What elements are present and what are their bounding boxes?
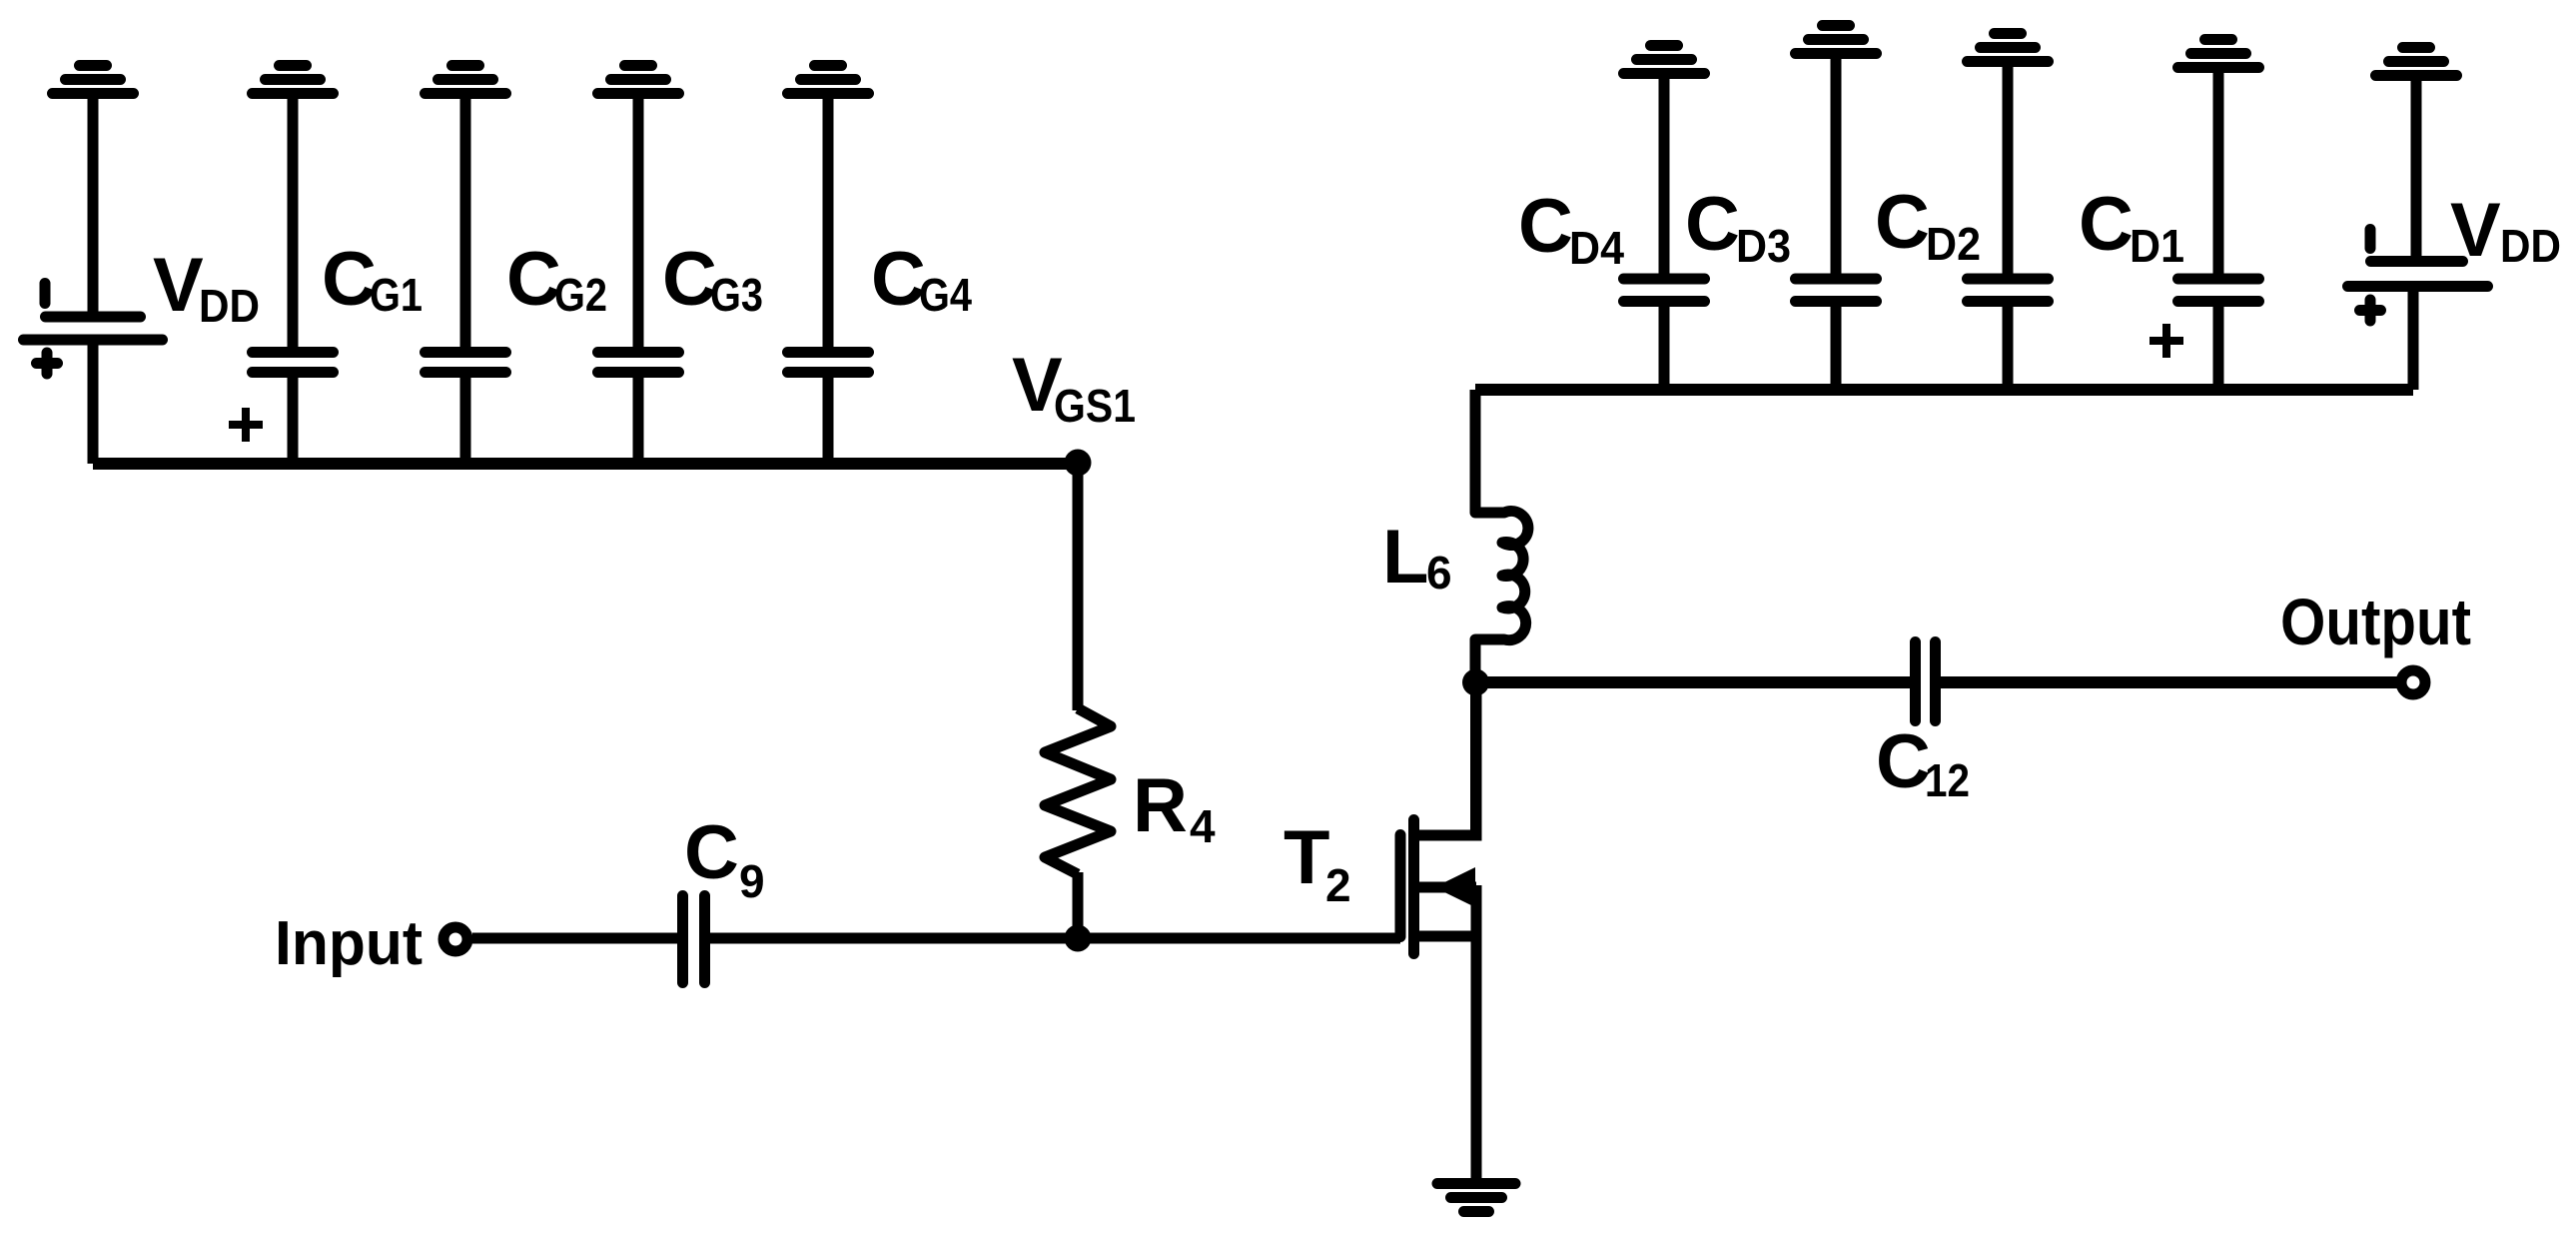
ground (inverted) above capacitor C_D3 <box>1796 26 1877 54</box>
wire C_G1 bottom lead <box>288 372 299 464</box>
wire C_G4 top lead <box>823 96 834 353</box>
label C_G4 <box>871 237 972 322</box>
ground (inverted) above capacitor C_G2 <box>426 66 506 94</box>
svg-text:C: C <box>684 810 739 895</box>
svg-text:G4: G4 <box>919 269 972 321</box>
ground (inverted) above capacitor C_G3 <box>598 66 679 94</box>
transistor T2 drain lead <box>1414 689 1476 835</box>
wire battery V_DD right bottom lead <box>2408 286 2419 390</box>
svg-text:6: 6 <box>1426 547 1452 599</box>
wire C_G4 bottom lead <box>823 372 834 464</box>
wire battery V_DD right top lead <box>2411 76 2422 262</box>
capacitor C_G4 <box>788 353 869 373</box>
minus tick battery V_DD left <box>40 284 51 304</box>
svg-text:Input: Input <box>275 909 423 978</box>
inductor L6 <box>1475 390 1528 682</box>
wire T2 source to ground <box>1471 885 1482 1183</box>
wire C_D2 bottom lead <box>2003 300 2014 390</box>
ground (inverted) above battery V_DD left <box>53 66 134 94</box>
svg-text:4: 4 <box>1190 800 1216 852</box>
plus sign near C_G1 <box>229 408 263 442</box>
wire C_D2 top lead <box>2003 62 2014 280</box>
wire C_G1 top lead <box>288 96 299 353</box>
wire C_G2 bottom lead <box>460 372 471 464</box>
svg-text:R: R <box>1133 763 1188 848</box>
wire gate node to transistor T2 gate <box>1078 933 1400 944</box>
wire battery V_DD left bottom lead <box>88 340 99 464</box>
capacitor C12 <box>1916 642 1936 721</box>
ground (inverted) above capacitor C_D4 <box>1624 46 1705 74</box>
transistor T2 channel bar <box>1408 820 1419 954</box>
svg-text:Output: Output <box>2280 585 2471 658</box>
svg-text:GS1: GS1 <box>1054 380 1136 432</box>
svg-text:G3: G3 <box>710 269 763 321</box>
svg-text:G1: G1 <box>370 269 423 321</box>
input terminal circle <box>443 927 467 951</box>
capacitor C_G1 <box>253 353 334 373</box>
label C_D1 <box>2079 182 2184 272</box>
label T2 <box>1284 815 1351 911</box>
label C_D4 <box>1518 184 1624 274</box>
wire resistor R4 to gate node <box>1073 872 1084 938</box>
wire C_G3 bottom lead <box>633 372 644 464</box>
ground (inverted) above capacitor C_G4 <box>788 66 869 94</box>
svg-text:T: T <box>1284 815 1329 900</box>
svg-text:DD: DD <box>2500 220 2561 272</box>
svg-text:D3: D3 <box>1736 220 1791 272</box>
wire C_D1 top lead <box>2213 68 2224 280</box>
wire drain bus (top right) <box>1475 384 2413 396</box>
wire V_GS1 to resistor R4 <box>1073 463 1084 710</box>
ground (inverted) above capacitor C_G1 <box>253 66 334 94</box>
label C_D2 <box>1875 180 1981 270</box>
svg-text:DD: DD <box>199 280 260 332</box>
label C_D3 <box>1685 182 1791 272</box>
svg-text:C: C <box>506 237 561 322</box>
minus tick battery V_DD right <box>2365 230 2376 249</box>
plus sign battery V_DD left <box>37 353 58 374</box>
svg-text:L: L <box>1382 515 1428 600</box>
svg-text:G2: G2 <box>554 269 607 321</box>
ground at T2 source <box>1437 1184 1515 1212</box>
transistor T2 body lead with arrow <box>1417 882 1476 893</box>
node V_GS1 junction dot <box>1065 450 1092 477</box>
capacitor C_G2 <box>426 353 506 373</box>
wire drain node to capacitor C12 <box>1475 676 1916 688</box>
transistor T2 source lead <box>1414 931 1476 942</box>
transistor T2 gate bar <box>1395 835 1406 937</box>
svg-text:C: C <box>871 237 926 322</box>
wire C_G3 top lead <box>633 96 644 353</box>
node gate junction dot <box>1065 925 1092 952</box>
svg-text:C: C <box>2079 182 2134 267</box>
label C_G1 <box>322 237 423 322</box>
label L6 <box>1382 515 1452 600</box>
ground (inverted) above battery V_DD right <box>2376 48 2457 76</box>
capacitor C9 <box>683 896 705 983</box>
label R4 <box>1133 763 1216 852</box>
wire capacitor C9 to gate node <box>704 933 1078 944</box>
svg-text:C: C <box>322 237 377 322</box>
svg-text:C: C <box>1685 182 1740 267</box>
capacitor C_D3 <box>1796 279 1877 302</box>
resistor R4 <box>1045 708 1111 874</box>
capacitor C_D1 <box>2178 279 2259 302</box>
label Output <box>2280 585 2471 658</box>
wire gate bias bus <box>93 458 1078 470</box>
svg-text:9: 9 <box>739 855 765 907</box>
battery V_DD left <box>24 317 163 340</box>
label C_G3 <box>662 237 763 322</box>
label V_DD right <box>2450 188 2561 273</box>
plus sign near C_D1 <box>2149 324 2183 358</box>
label V_DD left <box>153 243 260 332</box>
wire capacitor C12 to output <box>1935 676 2401 688</box>
wire C_G2 top lead <box>460 96 471 353</box>
svg-text:V: V <box>2450 188 2501 273</box>
svg-text:12: 12 <box>1925 754 1970 806</box>
svg-text:V: V <box>153 243 204 328</box>
svg-text:D2: D2 <box>1926 218 1981 270</box>
wire battery V_DD left top lead <box>88 96 99 313</box>
node drain junction dot <box>1462 669 1489 696</box>
svg-text:C: C <box>1875 180 1930 265</box>
wire C_D4 bottom lead <box>1659 300 1670 390</box>
wire C_D4 top lead <box>1659 74 1670 280</box>
svg-text:D4: D4 <box>1569 222 1624 274</box>
battery V_DD right <box>2348 262 2488 287</box>
svg-text:C: C <box>662 237 717 322</box>
capacitor C_G3 <box>598 353 679 373</box>
wire C_D1 bottom lead <box>2213 300 2224 390</box>
label C12 <box>1876 719 1970 806</box>
capacitor C_D2 <box>1968 279 2049 302</box>
svg-text:C: C <box>1876 719 1931 804</box>
svg-text:D1: D1 <box>2130 220 2184 272</box>
capacitor C_D4 <box>1624 279 1705 302</box>
svg-text:C: C <box>1518 184 1573 269</box>
wire input to capacitor C9 <box>472 933 683 944</box>
ground (inverted) above capacitor C_D2 <box>1968 34 2049 62</box>
plus sign battery V_DD right <box>2360 300 2381 321</box>
wire C_D3 top lead <box>1831 54 1842 280</box>
label V_GS1 <box>1012 343 1136 432</box>
label C9 <box>684 810 765 907</box>
wire drain node down to T2 drain <box>1470 682 1481 837</box>
label C_G2 <box>506 237 607 322</box>
svg-text:2: 2 <box>1325 859 1351 911</box>
label Input <box>275 909 423 978</box>
wire C_D3 bottom lead <box>1831 300 1842 390</box>
output terminal circle <box>2401 670 2425 694</box>
ground (inverted) above capacitor C_D1 <box>2178 40 2259 68</box>
